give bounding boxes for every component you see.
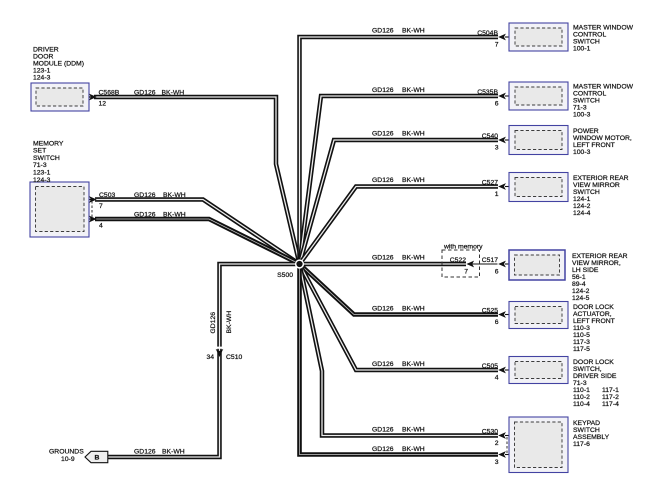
svg-text:SWITCH,: SWITCH, [573,366,602,373]
svg-text:SWITCH: SWITCH [573,189,600,196]
wire labels GD126 BK-WH (C503 pin7) [134,192,186,199]
svg-text:BK-WH: BK-WH [226,311,233,334]
connector C510 inline (arrow down) [206,347,242,361]
wire labels GD126 BK-WH (C568B) [134,90,184,97]
svg-text:89-4: 89-4 [572,281,586,288]
svg-text:7: 7 [99,203,103,210]
svg-text:4: 4 [99,223,103,230]
svg-text:C540: C540 [482,133,498,140]
svg-text:124-1: 124-1 [573,196,591,203]
svg-text:MEMORY: MEMORY [33,140,64,147]
svg-text:BK-WH: BK-WH [402,131,425,138]
svg-text:GD126: GD126 [372,28,394,35]
svg-text:C503: C503 [99,192,115,199]
svg-text:GD126: GD126 [372,427,394,434]
svg-text:117-6: 117-6 [573,441,590,448]
wire S500 to C535B (master window control switch 2) [300,96,499,264]
with memory dashed box [442,244,483,278]
svg-text:100-3: 100-3 [573,149,591,156]
svg-text:117-5: 117-5 [573,346,590,353]
svg-text:EXTERIOR REAR: EXTERIOR REAR [573,175,629,182]
wire S500 to ground B via C510 [108,264,300,457]
svg-text:10-9: 10-9 [61,456,75,463]
svg-text:WINDOW MOTOR,: WINDOW MOTOR, [573,135,632,142]
svg-text:DRIVER SIDE: DRIVER SIDE [573,373,617,380]
grounds label [49,449,84,464]
svg-text:C525: C525 [482,307,498,314]
svg-text:CONTROL: CONTROL [573,91,606,98]
svg-text:C517: C517 [482,257,498,264]
svg-text:MASTER WINDOW: MASTER WINDOW [573,84,634,91]
svg-text:C530: C530 [482,428,498,435]
memory set switch box [30,182,89,237]
svg-text:SWITCH: SWITCH [573,427,600,434]
svg-text:110-3: 110-3 [573,325,590,332]
master window control switch box 1 [509,23,568,51]
master window control switch box 2 [509,82,568,110]
wire labels GD126 BK-WH (row8 pin2) [372,427,425,434]
svg-text:EXTERIOR REAR: EXTERIOR REAR [572,253,628,260]
svg-text:SWITCH: SWITCH [573,39,600,46]
wire S500 to C522/C517 (exterior mirror LH) [300,262,498,267]
svg-text:CONTROL: CONTROL [573,32,606,39]
door lock actuator label [573,304,615,353]
svg-text:6: 6 [495,319,499,326]
svg-text:VIEW MIRROR,: VIEW MIRROR, [572,260,621,267]
svg-text:LH SIDE: LH SIDE [572,267,599,274]
svg-text:C504B: C504B [477,30,498,37]
svg-text:GD126: GD126 [372,255,394,262]
svg-text:3: 3 [495,145,499,152]
svg-text:C535B: C535B [477,89,498,96]
svg-text:GD126: GD126 [372,131,394,138]
svg-text:GROUNDS: GROUNDS [49,449,84,456]
connector C517 arrow pin 6 [482,257,515,276]
exterior rear view mirror switch label [573,175,629,217]
svg-text:7: 7 [464,269,468,276]
svg-text:B: B [95,455,100,462]
svg-text:S500: S500 [277,272,293,279]
svg-text:BK-WH: BK-WH [163,212,186,219]
svg-text:BK-WH: BK-WH [402,255,425,262]
svg-text:117-4: 117-4 [602,401,619,408]
wire labels GD126 BK-WH (row5) [372,255,425,262]
svg-text:GD126: GD126 [372,87,394,94]
svg-text:BK-WH: BK-WH [402,87,425,94]
wire labels GD126 BK-WH (row1) [372,28,425,35]
svg-text:BK-WH: BK-WH [163,192,186,199]
svg-text:POWER: POWER [573,128,599,135]
svg-text:with memory: with memory [443,244,483,251]
svg-text:100-3: 100-3 [573,112,591,119]
svg-text:BK-WH: BK-WH [402,177,425,184]
svg-text:GD126: GD126 [372,446,394,453]
connector C504B arrow pin 7 [477,30,515,49]
svg-text:BK-WH: BK-WH [162,90,185,97]
svg-text:C527: C527 [482,179,498,186]
dashed link between keypad pins 2 and 3 [506,437,508,453]
splice node S500 [295,259,304,268]
svg-text:BK-WH: BK-WH [402,427,425,434]
svg-text:7: 7 [495,42,499,49]
power window motor box [509,126,568,155]
svg-text:C522: C522 [450,257,466,264]
svg-text:124-2: 124-2 [572,288,590,295]
svg-text:12: 12 [99,101,107,108]
wire S500 to C540 (power window motor) [300,140,499,264]
svg-text:KEYPAD: KEYPAD [573,420,600,427]
wire memory set switch pin 7 to S500 [95,200,300,265]
svg-text:124-5: 124-5 [572,295,590,302]
svg-text:LEFT FRONT: LEFT FRONT [573,318,615,325]
wire labels GD126 BK-WH (row3) [372,131,425,138]
svg-text:34: 34 [206,354,214,361]
svg-text:BK-WH: BK-WH [402,28,425,35]
svg-text:100-1: 100-1 [573,46,591,53]
svg-text:GD126: GD126 [210,312,217,334]
svg-text:71-3: 71-3 [573,105,587,112]
svg-text:110-2: 110-2 [573,394,590,401]
svg-text:MODULE (DDM): MODULE (DDM) [33,61,84,68]
connector C527 arrow pin 1 [482,179,515,198]
svg-text:BK-WH: BK-WH [402,361,425,368]
connector C505 arrow pin 4 [482,363,515,382]
svg-text:110-1: 110-1 [573,387,590,394]
exterior rear view mirror LH label [572,253,628,302]
svg-text:1: 1 [495,191,499,198]
svg-text:DOOR LOCK: DOOR LOCK [573,304,614,311]
power window motor label [573,128,632,156]
svg-text:110-4: 110-4 [573,401,590,408]
svg-text:124-3: 124-3 [33,75,51,82]
svg-text:2: 2 [495,440,499,447]
svg-text:DOOR: DOOR [33,54,53,61]
svg-text:ASSEMBLY: ASSEMBLY [573,434,610,441]
svg-text:71-3: 71-3 [33,162,47,169]
svg-text:56-1: 56-1 [572,274,586,281]
svg-text:SWITCH: SWITCH [573,98,600,105]
connector C568B arrow pin 12 [89,90,120,108]
svg-text:6: 6 [495,269,499,276]
svg-text:ACTUATOR,: ACTUATOR, [573,311,612,318]
wire S500 to keypad pin 3 (thick) [300,264,499,455]
svg-text:GD126: GD126 [134,212,156,219]
connector C530 arrow pin 2 [482,428,515,447]
wire labels GD126 BK-WH (row8 pin3) [372,446,425,453]
svg-text:GD126: GD126 [134,449,156,456]
svg-text:MASTER WINDOW: MASTER WINDOW [573,25,634,32]
wire S500 to C505 (door lock switch) [300,264,499,370]
svg-text:123-1: 123-1 [33,170,51,177]
svg-text:123-1: 123-1 [33,68,51,75]
wire labels GD126 BK-WH (row6) [372,306,425,313]
master window control switch label 1 [573,25,634,53]
dashed link between pins 7 and 4 [91,201,93,218]
svg-text:DOOR LOCK: DOOR LOCK [573,359,614,366]
master window control switch label 2 [573,84,634,119]
wire S500 to C527 (exterior rear view mirror switch) [300,187,499,265]
svg-text:GD126: GD126 [372,306,394,313]
keypad switch assembly box [509,417,568,473]
svg-text:6: 6 [495,101,499,108]
wire labels GD126 BK-WH (row4) [372,177,425,184]
door lock actuator box [509,302,568,329]
driver door module label [33,47,84,82]
svg-text:GD126: GD126 [372,361,394,368]
svg-text:117-3: 117-3 [573,339,590,346]
svg-text:124-3: 124-3 [33,177,51,184]
svg-text:DRIVER: DRIVER [33,47,59,54]
driver door module box [31,83,89,111]
svg-text:110-5: 110-5 [573,332,590,339]
svg-text:117-1: 117-1 [602,387,619,394]
svg-text:124-2: 124-2 [573,203,591,210]
svg-text:BK-WH: BK-WH [402,306,425,313]
memory set switch label [33,140,64,184]
door lock switch box [509,357,568,384]
svg-text:GD126: GD126 [372,177,394,184]
door lock switch label [573,359,619,408]
exterior rear view mirror switch box [509,173,568,202]
svg-text:LEFT FRONT: LEFT FRONT [573,142,615,149]
wire S500 to C530 keypad pin 2 [300,264,499,436]
wire labels GD126 BK-WH (C503 pin4) [134,212,186,219]
svg-text:VIEW MIRROR: VIEW MIRROR [573,182,620,189]
svg-text:C568B: C568B [99,90,120,97]
exterior rear view mirror LH box [509,250,565,280]
connector C503 arrow pin 7 [89,192,115,210]
svg-text:BK-WH: BK-WH [402,446,425,453]
svg-text:117-2: 117-2 [602,394,619,401]
wire S500 to C504B (master window control switch) [300,37,499,264]
svg-text:C505: C505 [482,363,498,370]
connector C540 arrow pin 3 [482,133,515,152]
svg-text:124-4: 124-4 [573,210,591,217]
wire C568B from driver door module to splice S500 [94,97,300,264]
wire memory set switch pin 4 to S500 (thick) [95,219,300,264]
wire labels GD126 BK-WH (row7) [372,361,425,368]
ground connector B [85,451,108,462]
svg-text:71-3: 71-3 [573,380,587,387]
connector C503 arrow pin 4 [89,216,103,230]
wire labels GD126 BK-WH (ground wire) [134,449,185,456]
svg-text:SWITCH: SWITCH [33,155,60,162]
svg-text:GD126: GD126 [134,192,156,199]
svg-text:BK-WH: BK-WH [162,449,185,456]
connector arrow pin 3 [495,451,515,466]
connector C522 arrow pin 7 [450,257,474,276]
svg-text:GD126: GD126 [134,90,156,97]
connector C525 arrow pin 6 [482,307,515,326]
svg-text:C510: C510 [226,354,242,361]
svg-text:SET: SET [33,148,46,155]
svg-text:3: 3 [495,459,499,466]
vertical wire labels GD126 BK-WH [210,311,233,334]
wire S500 to C525 (door lock actuator, thick) [300,264,499,315]
connector C535B arrow pin 6 [477,89,515,108]
keypad switch assembly label [573,420,610,448]
wire labels GD126 BK-WH (row2) [372,87,425,94]
svg-text:4: 4 [495,375,499,382]
